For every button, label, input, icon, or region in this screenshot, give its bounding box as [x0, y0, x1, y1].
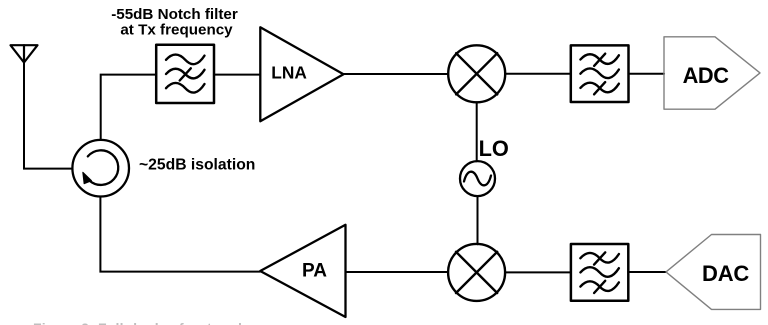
cropped caption text tops — [33, 320, 245, 325]
mixer U2 (transmit) — [448, 244, 505, 301]
DAC — [666, 235, 761, 310]
wire mixer 2 to bandpass filter 2 — [505, 271, 571, 273]
bandpass filter (TX) — [571, 244, 628, 301]
svg-text:ADC: ADC — [683, 63, 730, 88]
wire antenna to circulator — [24, 63, 72, 169]
wire LNA to mixer — [344, 73, 449, 75]
svg-text:DAC: DAC — [702, 261, 749, 286]
amplifier PA — [260, 225, 345, 317]
wire LO to mixer 2 — [477, 196, 479, 244]
wire mixer to LO — [476, 102, 478, 161]
svg-text:~25dB isolation: ~25dB isolation — [139, 157, 255, 174]
oscillator LO — [460, 161, 495, 196]
wire PA to circulator — [100, 197, 260, 272]
svg-text:LO: LO — [479, 136, 509, 161]
wire mixer 2 to PA — [346, 271, 449, 273]
notch filter — [156, 45, 214, 103]
ADC — [664, 37, 760, 109]
circulator — [72, 140, 129, 197]
svg-text:at Tx frequency: at Tx frequency — [120, 21, 233, 38]
wire notch filter to LNA — [214, 74, 260, 76]
cropped caption fragment — [36, 323, 236, 325]
bandpass filter (RX) — [571, 45, 629, 102]
wire bandpass filter to ADC — [629, 73, 665, 75]
svg-text:-55dB Notch filter: -55dB Notch filter — [111, 6, 238, 23]
wire bandpass filter 2 to DAC — [628, 271, 666, 273]
mixer U1 (receive) — [448, 45, 505, 102]
svg-text:LNA: LNA — [271, 63, 307, 83]
wire circulator to notch filter — [101, 75, 156, 140]
amplifier LNA — [260, 27, 343, 121]
svg-text:PA: PA — [302, 261, 327, 282]
wire mixer to bandpass filter — [505, 73, 571, 75]
antenna — [11, 45, 38, 62]
